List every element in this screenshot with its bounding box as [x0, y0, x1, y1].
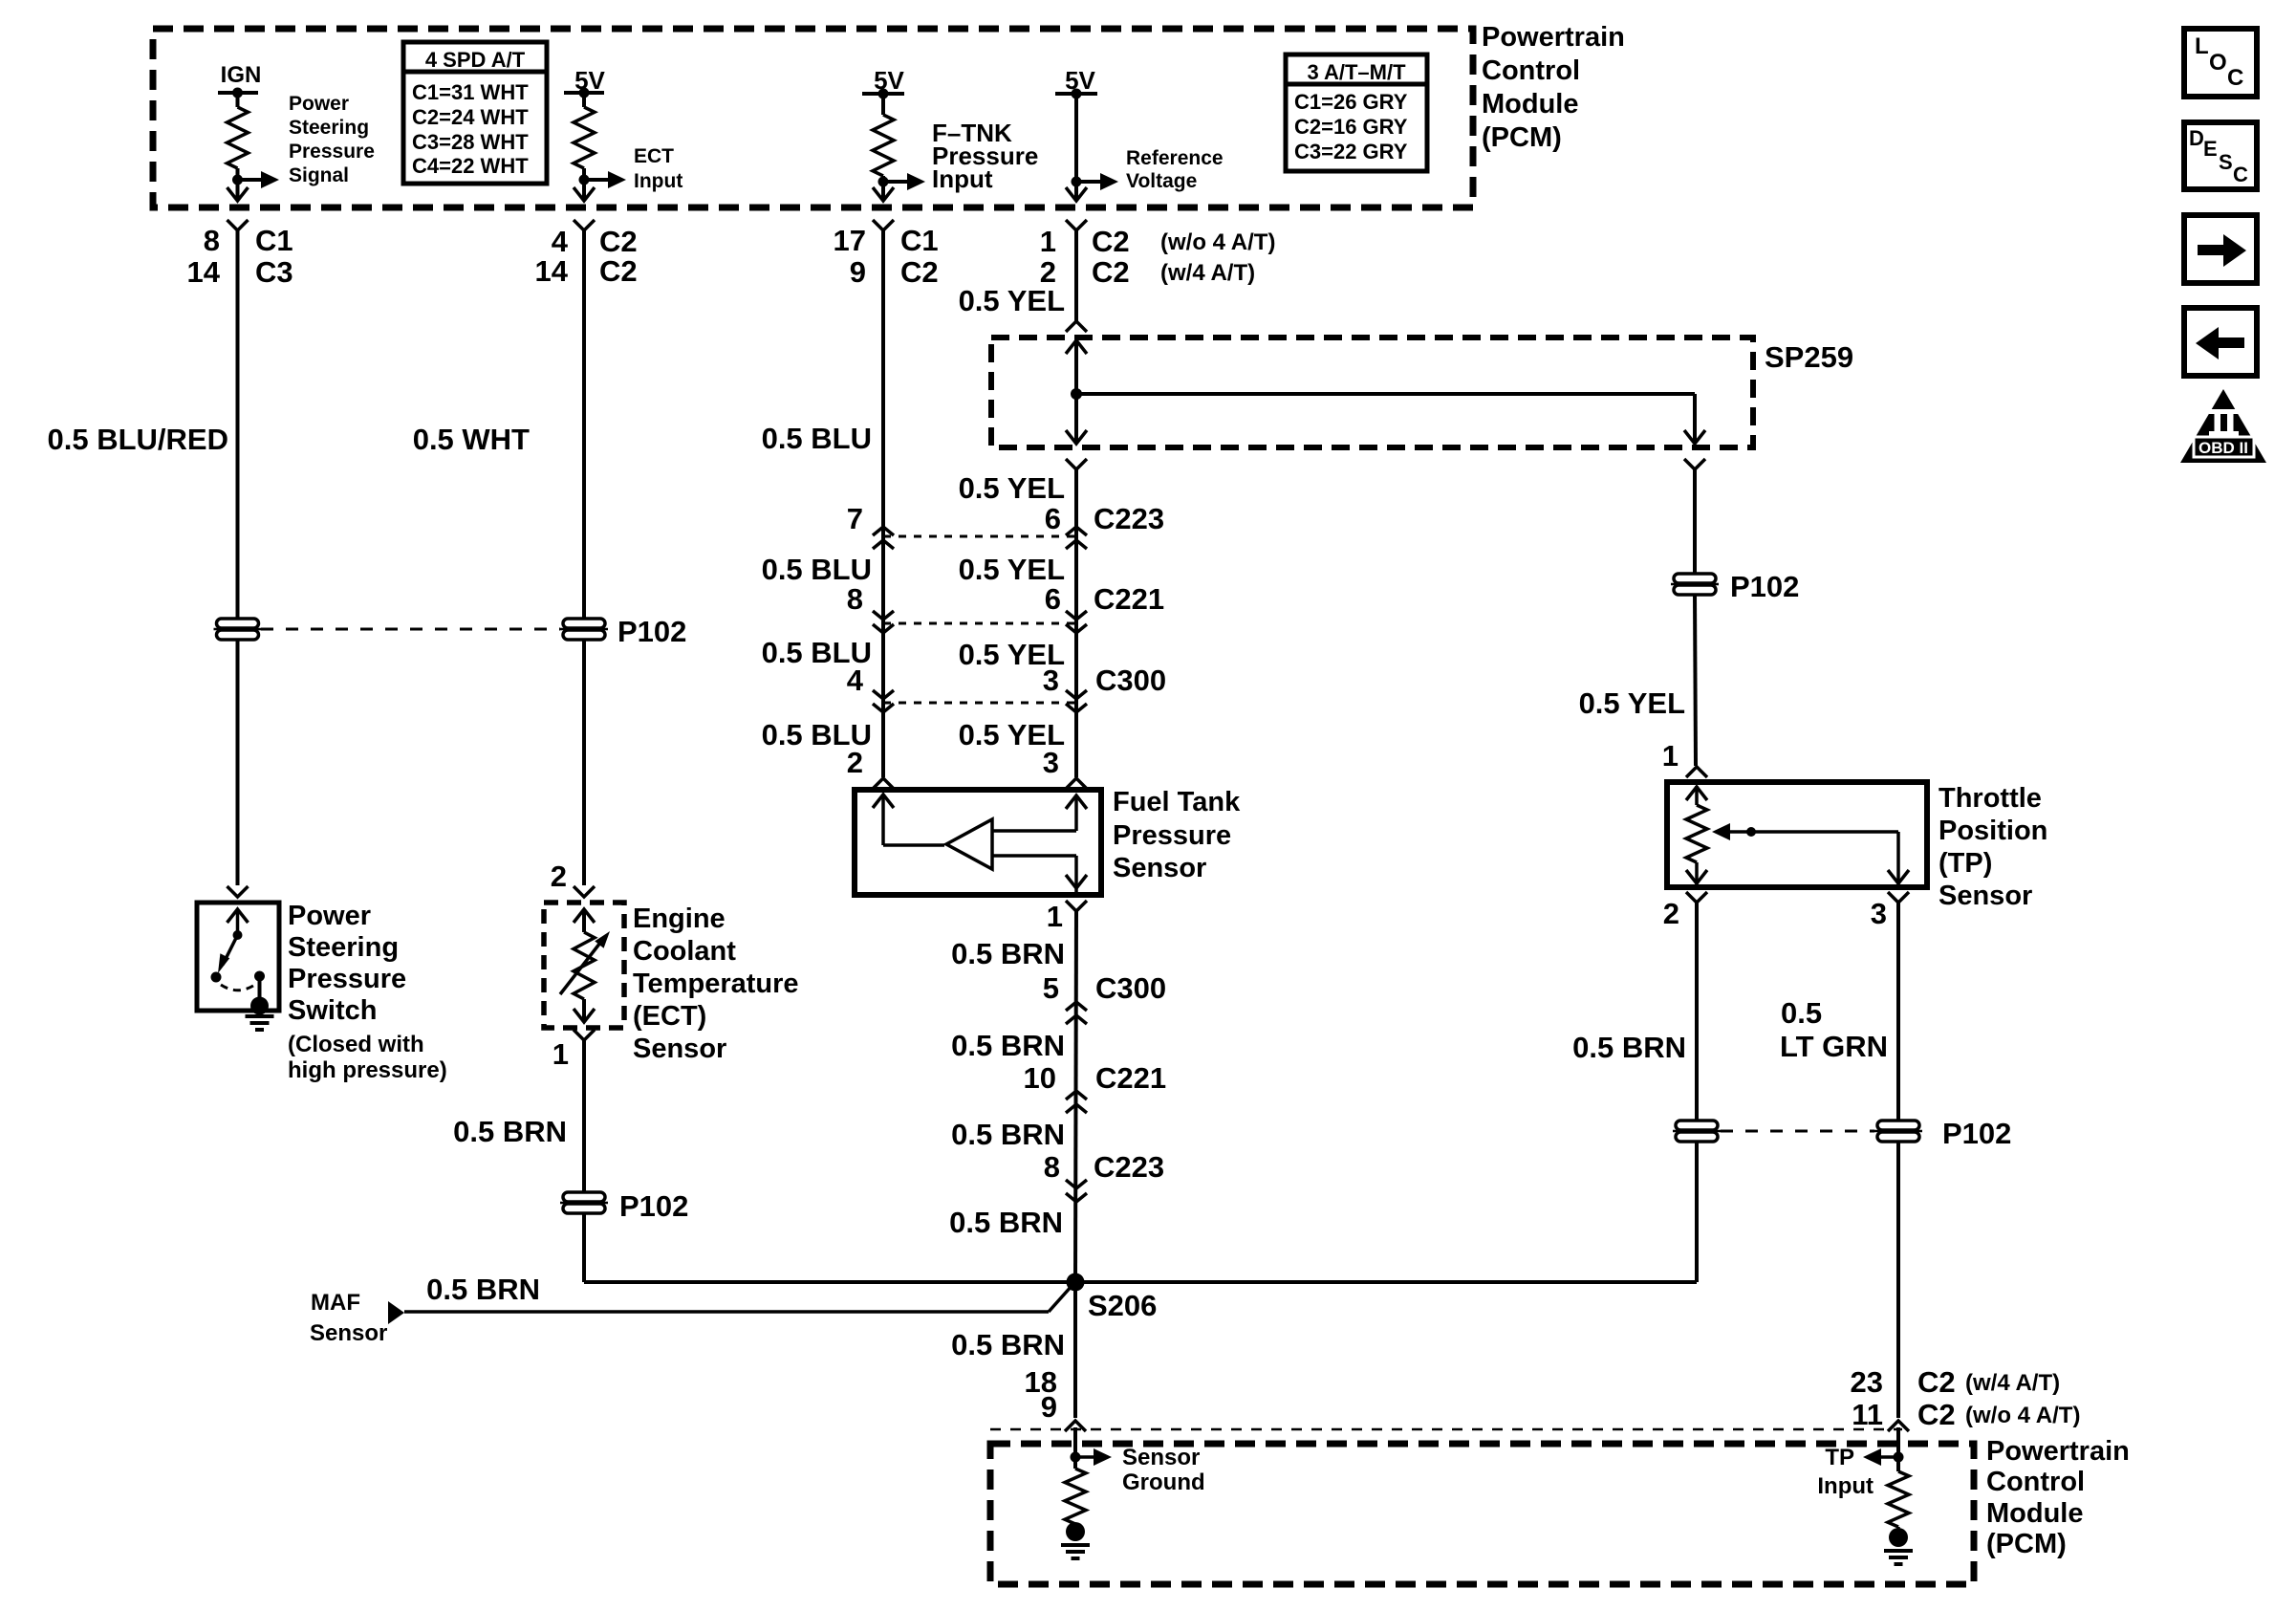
svg-text:4: 4 [847, 664, 864, 697]
svg-text:0.5 BRN: 0.5 BRN [951, 937, 1065, 970]
svg-text:C2=24 WHT: C2=24 WHT [412, 105, 529, 129]
svg-text:C: C [2233, 163, 2248, 186]
svg-text:Signal: Signal [289, 164, 349, 186]
svg-text:(w/o 4 A/T): (w/o 4 A/T) [1160, 229, 1275, 255]
svg-text:8: 8 [847, 582, 863, 616]
svg-text:Control: Control [1986, 1467, 2085, 1497]
svg-text:Sensor: Sensor [1122, 1445, 1200, 1470]
svg-text:C4=22 WHT: C4=22 WHT [412, 154, 529, 178]
svg-text:TP: TP [1825, 1445, 1854, 1470]
svg-text:E: E [2203, 137, 2218, 161]
svg-text:0.5 BLU: 0.5 BLU [762, 422, 872, 455]
svg-text:(Closed with: (Closed with [288, 1032, 424, 1057]
svg-text:C223: C223 [1094, 502, 1164, 535]
svg-text:0.5 YEL: 0.5 YEL [1579, 686, 1685, 720]
svg-text:LT GRN: LT GRN [1780, 1030, 1888, 1063]
svg-text:6: 6 [1045, 582, 1061, 616]
svg-text:P102: P102 [1730, 570, 1799, 603]
svg-text:(ECT): (ECT) [633, 1001, 706, 1032]
svg-text:Module: Module [1986, 1498, 2084, 1529]
svg-text:0.5 BRN: 0.5 BRN [426, 1273, 540, 1306]
svg-text:(w/4 A/T): (w/4 A/T) [1965, 1370, 2060, 1396]
svg-text:1: 1 [1047, 900, 1063, 933]
svg-text:8: 8 [1044, 1150, 1060, 1184]
svg-text:C2: C2 [1092, 255, 1130, 289]
svg-text:C2=16 GRY: C2=16 GRY [1294, 115, 1408, 139]
svg-text:L: L [2195, 33, 2209, 59]
svg-text:C3=28 WHT: C3=28 WHT [412, 130, 529, 154]
svg-text:Switch: Switch [288, 995, 377, 1026]
svg-text:P102: P102 [617, 615, 686, 648]
svg-text:ECT: ECT [634, 145, 674, 167]
svg-text:C1: C1 [255, 224, 293, 257]
svg-text:high pressure): high pressure) [288, 1057, 447, 1083]
svg-text:OBD II: OBD II [2199, 439, 2248, 457]
svg-text:Sensor: Sensor [1113, 853, 1206, 883]
svg-text:5V: 5V [874, 66, 904, 95]
svg-text:Steering: Steering [288, 932, 399, 963]
svg-text:Input: Input [1817, 1473, 1874, 1499]
svg-text:1: 1 [552, 1037, 569, 1071]
svg-text:6: 6 [1045, 502, 1061, 535]
svg-text:Ground: Ground [1122, 1469, 1205, 1495]
svg-text:7: 7 [847, 502, 863, 535]
svg-text:0.5 BRN: 0.5 BRN [1572, 1031, 1686, 1064]
svg-text:Power: Power [288, 901, 371, 931]
svg-text:Temperature: Temperature [633, 969, 799, 999]
svg-text:C2: C2 [1917, 1398, 1956, 1431]
svg-text:C221: C221 [1094, 582, 1164, 616]
svg-text:0.5 YEL: 0.5 YEL [959, 553, 1065, 586]
svg-text:11: 11 [1852, 1398, 1883, 1431]
svg-text:Coolant: Coolant [633, 936, 736, 967]
svg-text:P102: P102 [1942, 1117, 2011, 1150]
svg-text:0.5 WHT: 0.5 WHT [413, 423, 530, 456]
svg-text:C2: C2 [599, 225, 638, 258]
svg-text:(TP): (TP) [1939, 848, 1992, 879]
svg-text:14: 14 [187, 255, 221, 289]
svg-text:0.5 BLU/RED: 0.5 BLU/RED [48, 423, 228, 456]
svg-text:O: O [2209, 50, 2227, 76]
svg-text:Module: Module [1482, 89, 1579, 120]
svg-text:(w/4 A/T): (w/4 A/T) [1160, 260, 1255, 286]
svg-text:Steering: Steering [289, 117, 369, 139]
svg-text:Powertrain: Powertrain [1986, 1436, 2130, 1467]
svg-text:0.5 YEL: 0.5 YEL [959, 284, 1065, 317]
svg-text:0.5 BRN: 0.5 BRN [951, 1328, 1065, 1361]
svg-text:Throttle: Throttle [1939, 783, 2042, 814]
svg-text:3: 3 [1871, 897, 1887, 930]
svg-text:0.5 BRN: 0.5 BRN [949, 1206, 1063, 1239]
svg-text:IGN: IGN [221, 62, 262, 88]
svg-text:3 A/T–M/T: 3 A/T–M/T [1307, 60, 1406, 84]
svg-text:5: 5 [1043, 971, 1059, 1005]
svg-text:Sensor: Sensor [1939, 881, 2032, 911]
svg-text:(w/o 4 A/T): (w/o 4 A/T) [1965, 1403, 2080, 1428]
svg-text:2: 2 [551, 860, 567, 893]
svg-text:C1: C1 [900, 224, 939, 257]
svg-text:17: 17 [834, 224, 866, 257]
svg-text:SP259: SP259 [1765, 340, 1853, 374]
svg-text:0.5 BRN: 0.5 BRN [951, 1029, 1065, 1062]
svg-text:2: 2 [1663, 897, 1679, 930]
svg-text:0.5 BLU: 0.5 BLU [762, 553, 872, 586]
svg-text:8: 8 [204, 224, 220, 257]
svg-text:C2: C2 [900, 255, 939, 289]
svg-text:P102: P102 [619, 1189, 688, 1223]
svg-text:3: 3 [1043, 664, 1059, 697]
svg-text:D: D [2189, 126, 2204, 150]
svg-text:MAF: MAF [311, 1290, 360, 1316]
svg-text:Pressure: Pressure [288, 964, 406, 994]
svg-text:1: 1 [1662, 739, 1679, 773]
svg-text:S206: S206 [1088, 1289, 1157, 1322]
svg-text:Powertrain: Powertrain [1482, 22, 1625, 53]
svg-text:0.5 BRN: 0.5 BRN [453, 1115, 567, 1148]
svg-text:10: 10 [1024, 1061, 1056, 1095]
svg-text:Input: Input [932, 164, 993, 193]
svg-text:3: 3 [1043, 746, 1059, 779]
svg-text:C2: C2 [1092, 225, 1130, 258]
svg-text:4: 4 [552, 225, 569, 258]
svg-text:C300: C300 [1095, 664, 1166, 697]
svg-text:C: C [2227, 65, 2243, 91]
svg-text:C2: C2 [1917, 1365, 1956, 1399]
svg-text:Reference: Reference [1126, 147, 1224, 169]
svg-text:Fuel Tank: Fuel Tank [1113, 787, 1241, 817]
svg-text:1: 1 [1040, 225, 1056, 258]
svg-text:(PCM): (PCM) [1482, 122, 1562, 153]
svg-text:C221: C221 [1095, 1061, 1166, 1095]
svg-text:C223: C223 [1094, 1150, 1164, 1184]
svg-text:5V: 5V [574, 66, 605, 95]
svg-text:C2: C2 [599, 254, 638, 288]
svg-text:Sensor: Sensor [310, 1320, 387, 1346]
svg-text:Power: Power [289, 93, 349, 115]
svg-text:4 SPD A/T: 4 SPD A/T [425, 48, 526, 72]
svg-text:C300: C300 [1095, 971, 1166, 1005]
svg-text:Pressure: Pressure [289, 141, 375, 163]
svg-text:9: 9 [850, 255, 866, 289]
svg-text:14: 14 [535, 254, 569, 288]
svg-text:Voltage: Voltage [1126, 170, 1197, 192]
svg-text:C1=31 WHT: C1=31 WHT [412, 80, 529, 104]
svg-text:2: 2 [847, 746, 863, 779]
svg-text:0.5 BRN: 0.5 BRN [951, 1118, 1065, 1151]
svg-text:Control: Control [1482, 55, 1580, 86]
svg-text:23: 23 [1851, 1365, 1883, 1399]
svg-text:Input: Input [634, 170, 682, 192]
svg-text:0.5: 0.5 [1781, 996, 1822, 1030]
svg-text:Position: Position [1939, 816, 2047, 846]
svg-text:Engine: Engine [633, 903, 726, 934]
svg-text:S: S [2219, 150, 2233, 174]
svg-text:5V: 5V [1065, 66, 1095, 95]
svg-text:C3=22 GRY: C3=22 GRY [1294, 140, 1408, 163]
svg-text:Sensor: Sensor [633, 1034, 726, 1064]
svg-text:C3: C3 [255, 255, 293, 289]
svg-text:(PCM): (PCM) [1986, 1529, 2067, 1559]
svg-text:9: 9 [1041, 1390, 1057, 1424]
svg-text:C1=26 GRY: C1=26 GRY [1294, 90, 1408, 114]
svg-text:0.5 YEL: 0.5 YEL [959, 471, 1065, 505]
svg-text:Pressure: Pressure [1113, 820, 1231, 851]
